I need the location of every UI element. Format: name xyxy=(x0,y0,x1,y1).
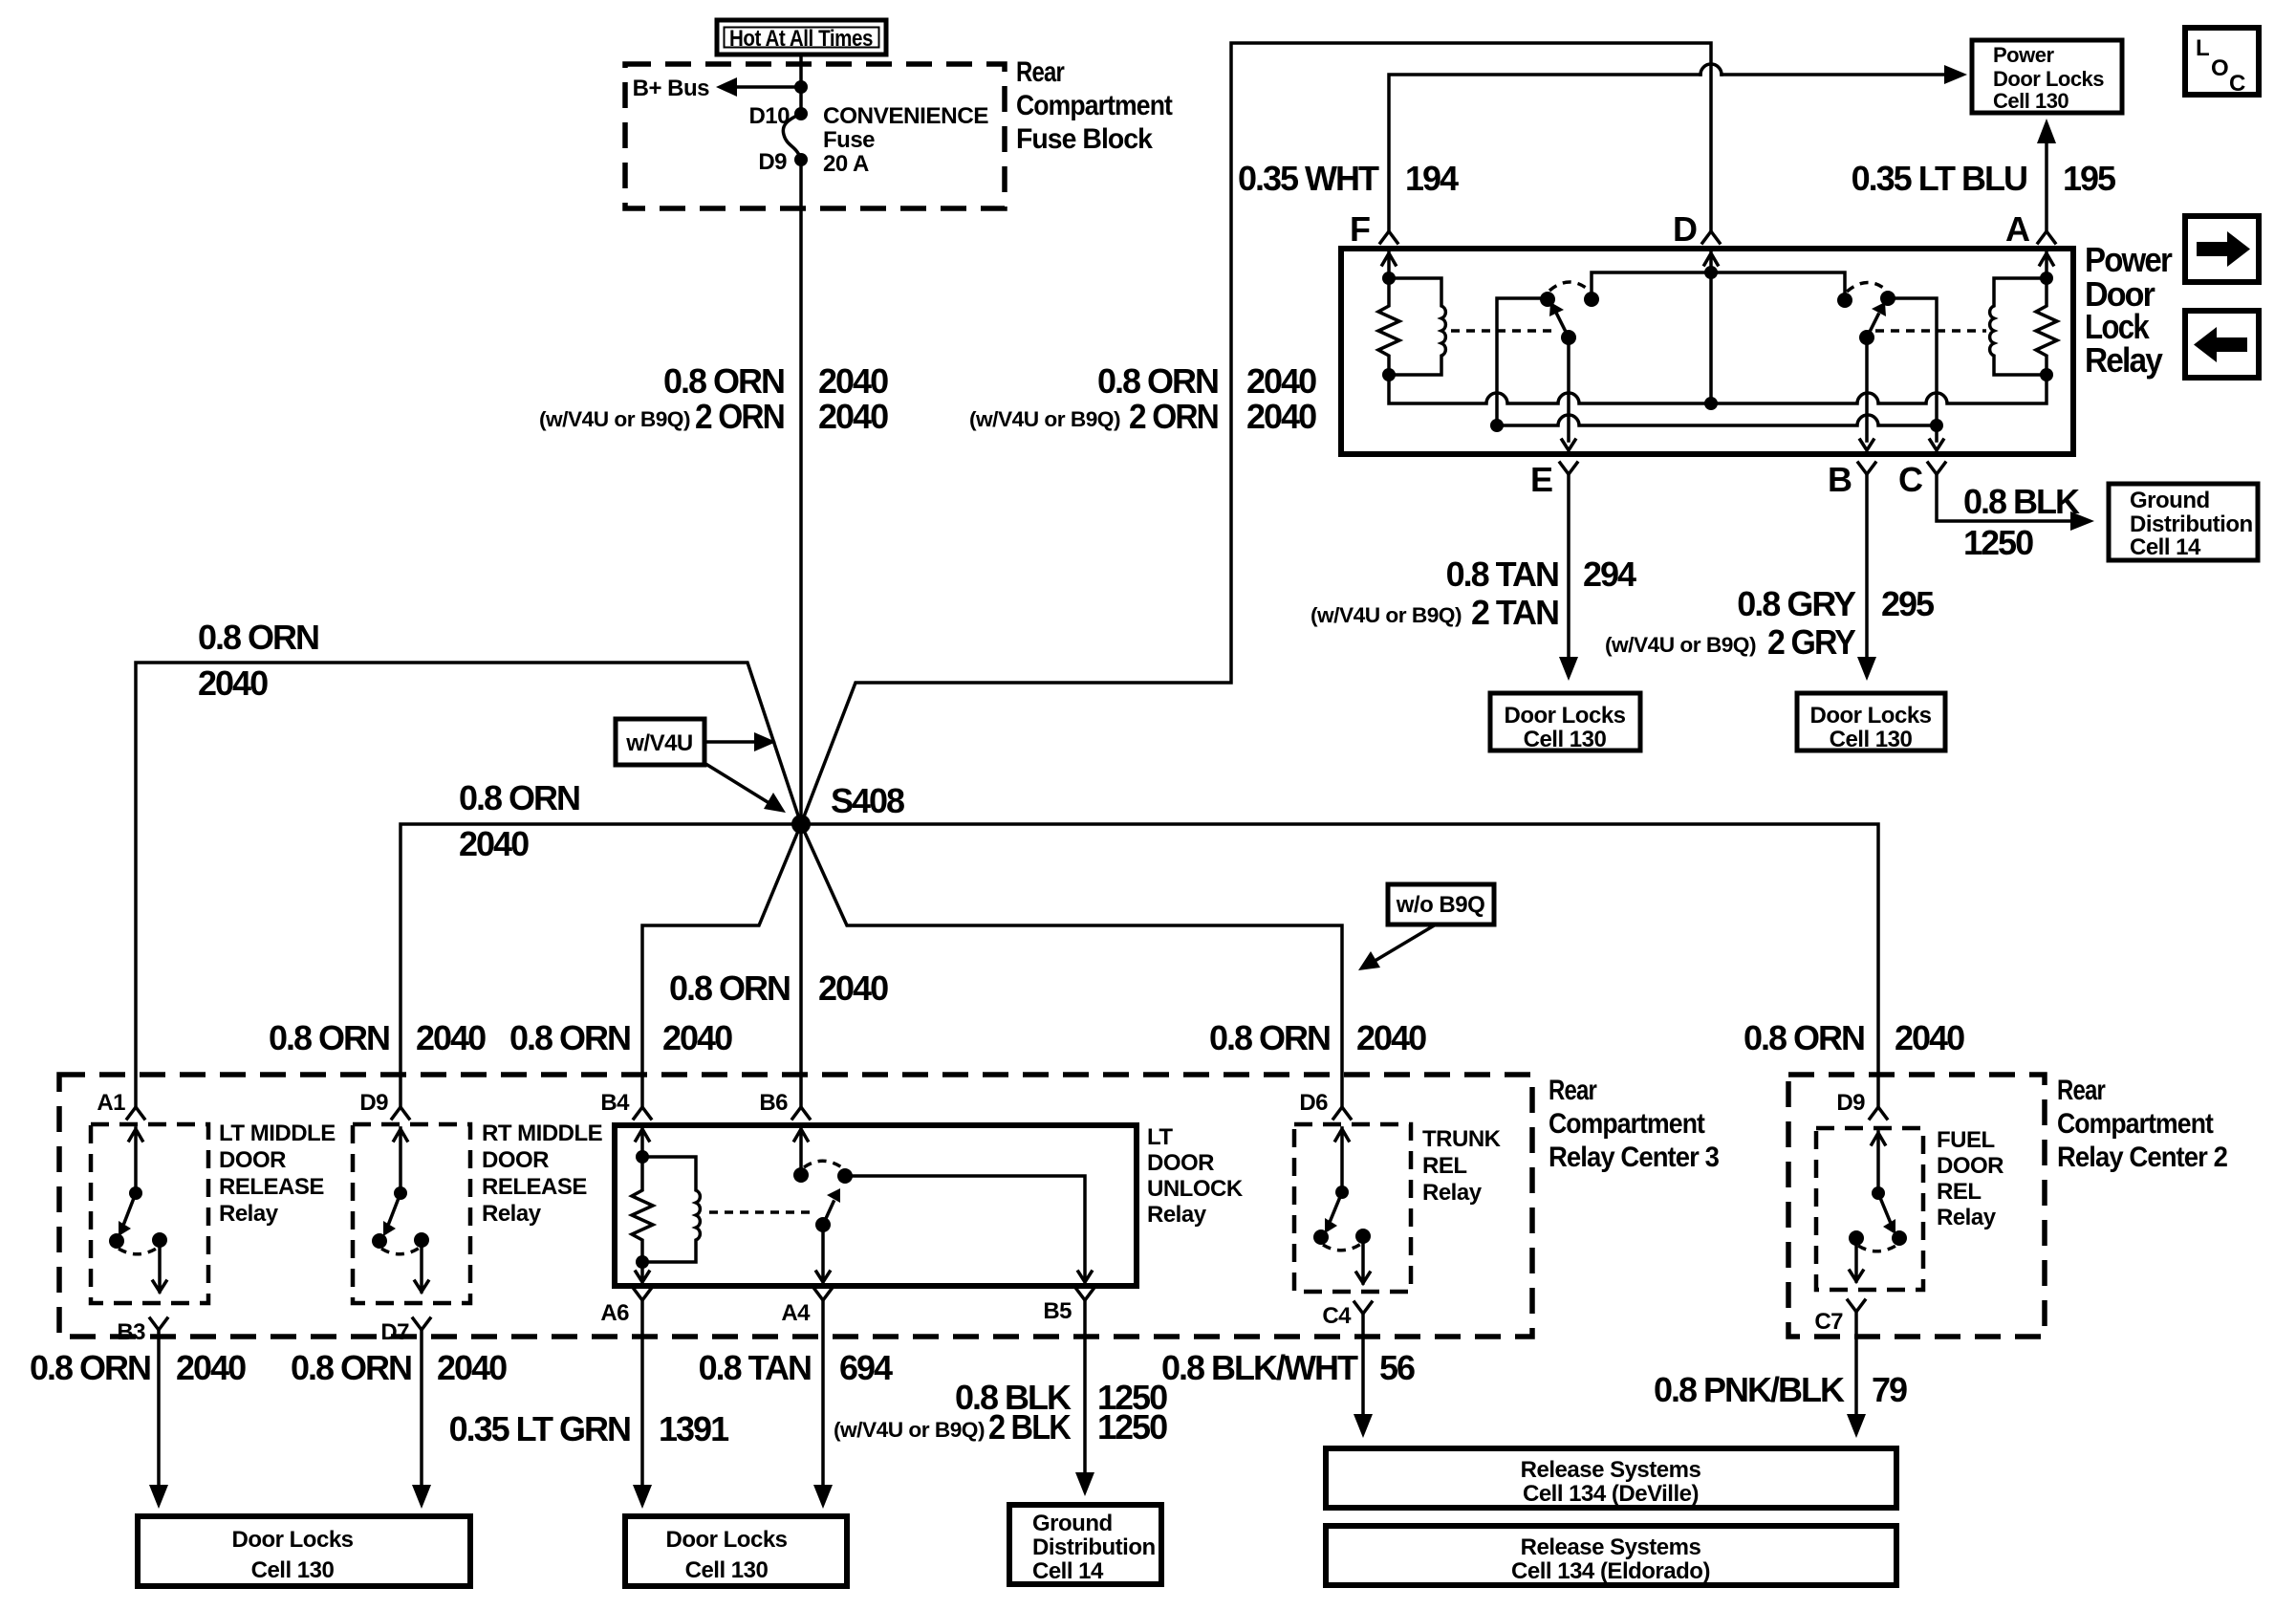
dashed throw arc xyxy=(1858,1245,1897,1251)
svg-text:Relay Center 2: Relay Center 2 xyxy=(2057,1142,2227,1173)
svg-text:D9: D9 xyxy=(1836,1090,1865,1116)
label 0.8 ORN 2040 (B3) xyxy=(30,1348,246,1387)
coil (left relay winding) xyxy=(1389,278,1445,375)
splice S408 dot xyxy=(791,815,811,834)
box Door Locks Cell 130 (B3/D7) xyxy=(138,1516,470,1586)
svg-text:Relay: Relay xyxy=(1422,1180,1483,1206)
svg-text:0.8 ORN: 0.8 ORN xyxy=(1744,1018,1864,1057)
crossbar linking both switches xyxy=(1592,272,1845,300)
terminal chevron B xyxy=(1858,463,1875,474)
svg-text:REL: REL xyxy=(1422,1153,1467,1179)
Rear Compartment Fuse Block dashed box xyxy=(625,64,1005,208)
dashed box Rear Compartment Relay Center 2 xyxy=(1788,1075,2045,1337)
label 0.8 TAN 694 xyxy=(699,1348,893,1387)
svg-text:2 TAN: 2 TAN xyxy=(1471,593,1558,632)
box Door Locks Cell 130 (B) xyxy=(1797,693,1945,752)
terminal chevron C4 xyxy=(1354,1302,1372,1314)
label CONVENIENCE Fuse 20 A xyxy=(823,103,988,177)
wire: D7 to Door Locks xyxy=(420,1330,423,1486)
arrowhead A to box xyxy=(2037,119,2056,143)
terminal chevron D9 (fuel) xyxy=(1870,1107,1887,1119)
svg-text:O: O xyxy=(2211,55,2228,81)
label Rear Compartment Relay Center 3 xyxy=(1549,1075,1719,1173)
output wire to D7 xyxy=(415,1240,428,1292)
svg-text:Cell 134 (Eldorado): Cell 134 (Eldorado) xyxy=(1511,1558,1710,1584)
switch right contact xyxy=(1355,1229,1371,1244)
left wiper arrowhead xyxy=(1549,302,1564,316)
svg-text:F: F xyxy=(1350,209,1370,249)
wire: C4 to Release Systems xyxy=(1361,1314,1365,1415)
svg-text:RELEASE: RELEASE xyxy=(482,1174,587,1200)
svg-text:Release Systems: Release Systems xyxy=(1521,1457,1701,1483)
fuse terminal D9 dot xyxy=(794,153,808,166)
svg-text:294: 294 xyxy=(1583,555,1636,594)
svg-text:B4: B4 xyxy=(600,1090,630,1116)
svg-text:0.8 ORN: 0.8 ORN xyxy=(459,778,579,817)
wire: S408 lower-right branch to TRUNK REL D6 xyxy=(801,824,1342,1107)
switch arm arrowhead xyxy=(1883,1219,1895,1234)
svg-text:2040: 2040 xyxy=(1356,1018,1426,1057)
arrowhead A6 xyxy=(633,1485,652,1509)
switch arm xyxy=(1331,1192,1342,1220)
svg-text:D: D xyxy=(1673,209,1697,249)
svg-text:0.8 TAN: 0.8 TAN xyxy=(699,1348,811,1387)
svg-text:Relay: Relay xyxy=(2085,340,2163,380)
label TRUNK REL Relay xyxy=(1422,1126,1502,1206)
svg-text:LT: LT xyxy=(1147,1124,1173,1150)
svg-text:0.8 ORN: 0.8 ORN xyxy=(1097,361,1218,401)
coil winding xyxy=(642,1157,700,1262)
wire: B3 to Door Locks xyxy=(157,1330,161,1486)
svg-text:(w/V4U or B9Q): (w/V4U or B9Q) xyxy=(969,407,1120,431)
label FUEL DOOR REL Relay xyxy=(1937,1127,2004,1230)
inner dashed box xyxy=(353,1124,470,1303)
bus2: unlock return with hops xyxy=(1497,415,1937,425)
svg-text:0.35 WHT: 0.35 WHT xyxy=(1238,159,1379,198)
fuse element CONVENIENCE Fuse 20 A xyxy=(783,114,801,160)
svg-text:Relay: Relay xyxy=(219,1201,279,1227)
terminal chevron A6 xyxy=(634,1289,651,1300)
arrowhead C wire xyxy=(2070,511,2094,531)
wire: A6 to Door Locks xyxy=(640,1300,644,1486)
relay pin B6 arrow down to contact xyxy=(794,1128,808,1175)
svg-text:2040: 2040 xyxy=(1895,1018,1964,1057)
svg-text:2040: 2040 xyxy=(818,361,888,401)
svg-text:C: C xyxy=(1898,460,1923,499)
switch arm xyxy=(389,1193,401,1223)
output wire to C7 xyxy=(1850,1238,1863,1281)
svg-text:20 A: 20 A xyxy=(823,151,869,177)
relay input arrow (A1) xyxy=(129,1128,142,1193)
svg-text:DOOR: DOOR xyxy=(1937,1153,2004,1179)
node: bus2 right end xyxy=(1930,419,1943,432)
svg-text:0.8 PNK/BLK: 0.8 PNK/BLK xyxy=(1654,1370,1845,1409)
svg-text:0.8 BLK: 0.8 BLK xyxy=(1963,482,2080,521)
svg-text:Door Locks: Door Locks xyxy=(1809,703,1931,729)
dashed actuator link (left) xyxy=(1451,329,1556,333)
label Rear Compartment Fuse Block xyxy=(1016,56,1173,155)
svg-text:B3: B3 xyxy=(117,1319,145,1345)
wire: S408 down to LT DOOR UNLOCK B6 xyxy=(799,824,803,1107)
svg-text:Ground: Ground xyxy=(2130,488,2210,513)
svg-text:Compartment: Compartment xyxy=(1016,90,1173,121)
arrowhead B wire xyxy=(1857,657,1876,681)
svg-text:Compartment: Compartment xyxy=(1549,1108,1705,1140)
switch left contact xyxy=(1313,1229,1329,1245)
svg-text:DOOR: DOOR xyxy=(219,1147,286,1173)
label (w/V4U or B9Q) 2 ORN 2040 (right riser) xyxy=(969,397,1316,436)
node: left coil bottom xyxy=(1382,368,1396,381)
switch arm xyxy=(124,1193,136,1223)
label (w/V4U or B9Q) 2 GRY xyxy=(1605,622,1856,662)
svg-text:2040: 2040 xyxy=(176,1348,246,1387)
right switch right contact xyxy=(1880,291,1895,306)
label 0.8 BLK 1250 xyxy=(955,1378,1167,1417)
svg-text:0.35 LT GRN: 0.35 LT GRN xyxy=(449,1409,630,1448)
left switch left contact xyxy=(1540,292,1555,307)
label 0.8 GRY 295 xyxy=(1737,584,1935,623)
label Power Door Lock Relay xyxy=(2085,240,2173,380)
inner dashed box xyxy=(1294,1124,1411,1292)
label LT DOOR UNLOCK Relay xyxy=(1147,1124,1244,1228)
terminal chevron C xyxy=(1928,463,1945,474)
switch pivot xyxy=(394,1186,407,1200)
fuse terminal D10 dot xyxy=(794,107,808,120)
arrowhead C7 xyxy=(1847,1414,1866,1438)
svg-text:Cell 130: Cell 130 xyxy=(1830,727,1913,752)
svg-text:A: A xyxy=(2005,209,2030,249)
switch right contact xyxy=(837,1168,853,1184)
svg-text:2 ORN: 2 ORN xyxy=(1129,397,1218,436)
svg-text:0.8 ORN: 0.8 ORN xyxy=(30,1348,150,1387)
wire: C7 to Release Systems xyxy=(1854,1312,1858,1415)
right switch wiper pivot xyxy=(1859,330,1874,345)
wire: B5 to Ground Distribution xyxy=(1083,1300,1087,1473)
box Door Locks Cell 130 (E) xyxy=(1490,693,1640,752)
svg-text:LT MIDDLE: LT MIDDLE xyxy=(219,1120,336,1146)
label 0.35 LT GRN 1391 xyxy=(449,1409,729,1448)
label RT MIDDLE DOOR RELEASE Relay xyxy=(482,1120,603,1227)
dashed actuator link xyxy=(709,1210,812,1214)
svg-text:Rear: Rear xyxy=(1549,1075,1597,1106)
right switch dashed arc xyxy=(1847,282,1886,292)
label 0.8 ORN 2040 (D6 wire) xyxy=(1209,1018,1426,1057)
svg-text:0.8 ORN: 0.8 ORN xyxy=(198,618,318,657)
label (w/V4U or B9Q) 2 TAN xyxy=(1310,593,1558,632)
svg-text:RELEASE: RELEASE xyxy=(219,1174,324,1200)
label 0.8 ORN 2040 (B6 wire) xyxy=(669,968,888,1008)
svg-text:56: 56 xyxy=(1379,1348,1415,1387)
left switch right contact xyxy=(1584,292,1599,307)
relay input arrow (D9) xyxy=(394,1128,407,1193)
svg-text:79: 79 xyxy=(1872,1370,1907,1409)
svg-text:C7: C7 xyxy=(1814,1309,1843,1335)
switch right contact xyxy=(414,1232,429,1248)
svg-text:Rear: Rear xyxy=(2057,1075,2106,1106)
dashed throw arc xyxy=(1323,1244,1361,1251)
wire: S408 lower-left branch to LT DOOR UNLOCK B4 xyxy=(642,824,801,1107)
dashed throw arc xyxy=(804,1161,843,1168)
Hot At All Times box xyxy=(717,20,886,54)
svg-text:Power: Power xyxy=(1993,43,2054,67)
node: B+ Bus junction dot xyxy=(794,80,808,94)
box Power Door Locks Cell 130 xyxy=(1972,40,2122,113)
wire: S408 upper-left branch to LT MIDDLE DOOR RELEASE A1 xyxy=(136,663,801,1107)
svg-text:REL: REL xyxy=(1937,1179,1982,1205)
svg-text:0.8 ORN: 0.8 ORN xyxy=(1209,1018,1330,1057)
svg-text:2040: 2040 xyxy=(818,968,888,1008)
node: right coil top xyxy=(2040,272,2053,285)
svg-text:694: 694 xyxy=(839,1348,893,1387)
arrowhead A4 xyxy=(813,1485,833,1509)
svg-text:Door Locks: Door Locks xyxy=(231,1527,353,1553)
coil (right relay winding) xyxy=(1990,278,2047,375)
svg-text:Relay: Relay xyxy=(1147,1202,1207,1228)
output wire to C4 xyxy=(1356,1236,1370,1283)
switch pivot xyxy=(1872,1186,1885,1200)
dashed throw arc xyxy=(119,1248,158,1254)
svg-text:Relay Center 3: Relay Center 3 xyxy=(1549,1142,1719,1173)
relay pin F arrow xyxy=(1382,251,1396,278)
label 0.8 ORN 2040 (RT D9 vertical) xyxy=(269,1018,486,1057)
switch left contact xyxy=(372,1233,387,1249)
terminal chevron B6 xyxy=(792,1107,810,1119)
hop: F wire over D wire xyxy=(1700,64,1722,75)
wire: S408 east to FUEL DOOR REL D9 xyxy=(801,824,1878,1107)
wire: A4 to Door Locks xyxy=(821,1300,825,1486)
svg-text:(w/V4U or B9Q): (w/V4U or B9Q) xyxy=(1310,603,1462,627)
dashed box Rear Compartment Relay Center 3 xyxy=(59,1075,1532,1337)
wire: S408 upper-right branch to power door lock relay D xyxy=(801,43,1711,824)
arrowhead B3 xyxy=(149,1485,168,1509)
svg-text:2040: 2040 xyxy=(1246,397,1316,436)
svg-text:S408: S408 xyxy=(831,781,904,820)
box Release Systems Cell 134 (DeVille) xyxy=(1326,1448,1896,1508)
relay input arrow (D9) xyxy=(1872,1132,1885,1193)
svg-text:Cell 130: Cell 130 xyxy=(685,1557,769,1583)
svg-text:Power: Power xyxy=(2085,240,2173,279)
arrowhead B5 xyxy=(1075,1472,1094,1496)
switch wiper arm xyxy=(823,1202,834,1225)
terminal chevron C7 xyxy=(1848,1300,1865,1312)
svg-text:1391: 1391 xyxy=(659,1409,729,1448)
callout w/o B9Q xyxy=(1358,884,1494,970)
svg-text:w/o B9Q: w/o B9Q xyxy=(1396,892,1485,918)
svg-text:C: C xyxy=(2229,71,2245,97)
svg-text:w/V4U: w/V4U xyxy=(625,730,693,756)
svg-text:(w/V4U or B9Q): (w/V4U or B9Q) xyxy=(539,407,690,431)
svg-text:FUEL: FUEL xyxy=(1937,1127,1995,1153)
output wire to B3 xyxy=(153,1240,166,1292)
svg-text:Cell 14: Cell 14 xyxy=(2130,534,2201,560)
svg-text:2 BLK: 2 BLK xyxy=(988,1407,1072,1447)
terminal chevron D xyxy=(1702,231,1720,243)
switch right contact xyxy=(1892,1230,1907,1246)
relay pin D arrow and drop to bus1 xyxy=(1704,251,1718,403)
wire: relay F up and to Power Door Locks box (0.35 WHT 194) xyxy=(1389,75,1945,231)
terminal chevron D7 xyxy=(413,1318,430,1330)
box Door Locks Cell 130 (A6/A4) xyxy=(625,1516,847,1586)
svg-text:0.8 ORN: 0.8 ORN xyxy=(509,1018,630,1057)
svg-text:L: L xyxy=(2196,35,2209,61)
wire: B drop from right wiper xyxy=(1860,337,1874,450)
left switch wiper arm xyxy=(1557,315,1569,337)
node: D bus1 junction xyxy=(1704,397,1718,410)
svg-text:D7: D7 xyxy=(380,1319,409,1345)
node: left coil top xyxy=(1382,272,1396,285)
inner dashed box xyxy=(1816,1128,1923,1290)
svg-text:1250: 1250 xyxy=(1097,1407,1167,1447)
svg-text:DOOR: DOOR xyxy=(482,1147,549,1173)
svg-text:0.8 TAN: 0.8 TAN xyxy=(1446,555,1558,594)
svg-text:C4: C4 xyxy=(1322,1303,1352,1329)
terminal chevron D6 xyxy=(1333,1107,1351,1119)
svg-text:Cell 134 (DeVille): Cell 134 (DeVille) xyxy=(1523,1481,1699,1507)
svg-text:2040: 2040 xyxy=(198,664,268,703)
dashed actuator link (right) xyxy=(1875,329,1986,333)
svg-text:CONVENIENCE: CONVENIENCE xyxy=(823,103,988,129)
wire from left contact to bus2 branch xyxy=(1497,298,1548,425)
arrowhead C4 xyxy=(1354,1414,1373,1438)
svg-text:B+ Bus: B+ Bus xyxy=(633,76,710,101)
switch left contact (B6) xyxy=(793,1167,809,1183)
svg-text:B5: B5 xyxy=(1043,1298,1072,1324)
wire: C branch from right switch contact xyxy=(1888,298,1943,450)
label 0.8 PNK/BLK 79 xyxy=(1654,1370,1907,1409)
terminal chevron B5 xyxy=(1076,1289,1094,1300)
inner dashed box xyxy=(91,1124,208,1303)
switch pivot xyxy=(129,1186,142,1200)
legend box lock arrow (right) xyxy=(2185,216,2259,282)
svg-text:0.8 ORN: 0.8 ORN xyxy=(291,1348,411,1387)
label LT MIDDLE DOOR RELEASE Relay xyxy=(219,1120,336,1227)
node: bus2 left end xyxy=(1490,419,1504,432)
svg-text:Compartment: Compartment xyxy=(2057,1108,2214,1140)
right wiper arrowhead xyxy=(1872,302,1886,316)
svg-text:2040: 2040 xyxy=(459,824,529,863)
svg-text:Fuse Block: Fuse Block xyxy=(1016,123,1153,155)
wire: coil to A6 with arrow xyxy=(636,1262,649,1282)
svg-text:2040: 2040 xyxy=(437,1348,507,1387)
right switch left contact xyxy=(1837,293,1852,308)
box Ground Distribution Cell 14 xyxy=(1009,1505,1161,1584)
svg-text:Hot At All Times: Hot At All Times xyxy=(729,26,873,52)
arrowhead into Power Door Locks box xyxy=(1944,65,1967,84)
svg-text:0.8 BLK/WHT: 0.8 BLK/WHT xyxy=(1161,1348,1358,1387)
wire: wiper down to A4 with arrow xyxy=(816,1225,830,1282)
legend box LOC xyxy=(2185,28,2259,97)
svg-text:Relay: Relay xyxy=(1937,1205,1997,1230)
dashed throw arc xyxy=(381,1248,420,1254)
relay solid box xyxy=(615,1125,1137,1286)
arrowhead B+ Bus xyxy=(716,77,737,97)
label (w/V4U or B9Q) 2 ORN 2040 xyxy=(539,397,888,436)
svg-text:D9: D9 xyxy=(359,1090,388,1116)
node: right coil bottom xyxy=(2040,368,2053,381)
svg-text:A4: A4 xyxy=(781,1300,811,1326)
svg-text:Ground: Ground xyxy=(1032,1511,1113,1536)
left switch dashed arc xyxy=(1549,282,1590,291)
label 0.8 ORN 2040 (FUEL D9 wire) xyxy=(1744,1018,1964,1057)
terminal chevron B4 xyxy=(634,1107,651,1119)
wire: right contact to B5 with arrow xyxy=(845,1176,1092,1282)
svg-text:(w/V4U or B9Q): (w/V4U or B9Q) xyxy=(1605,633,1756,657)
svg-text:DOOR: DOOR xyxy=(1147,1150,1214,1176)
label 0.8 BLK/WHT 56 xyxy=(1161,1348,1415,1387)
box Ground Distribution Cell 14 xyxy=(2109,484,2258,560)
svg-text:2040: 2040 xyxy=(818,397,888,436)
svg-text:E: E xyxy=(1530,460,1552,499)
label 0.35 LT BLU 195 xyxy=(1852,159,2116,198)
terminal chevron F xyxy=(1380,231,1397,243)
label Rear Compartment Relay Center 2 xyxy=(2057,1075,2227,1173)
wire: E to Door Locks (0.8 TAN 294) xyxy=(1567,474,1570,658)
svg-text:B: B xyxy=(1828,460,1852,499)
svg-text:A6: A6 xyxy=(600,1300,629,1326)
svg-text:2040: 2040 xyxy=(416,1018,486,1057)
svg-text:Rear: Rear xyxy=(1016,56,1065,88)
wire: fuse D9 down to splice S408 xyxy=(799,160,803,824)
label 0.8 ORN 2040 (A1 branch) xyxy=(198,618,318,703)
arrowhead D7 xyxy=(412,1485,431,1509)
terminal chevron B3 xyxy=(150,1318,167,1330)
label 0.8 TAN 294 xyxy=(1446,555,1636,594)
svg-text:Relay: Relay xyxy=(482,1201,542,1227)
resistor (right, parallel with coil) xyxy=(2036,278,2057,375)
label 0.35 WHT 194 xyxy=(1238,159,1459,198)
switch arm arrowhead xyxy=(119,1221,131,1236)
node: D crossbar junction xyxy=(1704,266,1718,279)
svg-text:0.8 ORN: 0.8 ORN xyxy=(669,968,790,1008)
label 0.8 ORN 2040 (fuse feed) xyxy=(663,361,888,401)
svg-text:0.35 LT BLU: 0.35 LT BLU xyxy=(1852,159,2026,198)
relay pin A arrow xyxy=(2040,251,2053,278)
wire: relay A up to Power Door Locks box (0.35 LT BLU 195) xyxy=(2045,141,2048,231)
svg-text:0.8 ORN: 0.8 ORN xyxy=(663,361,784,401)
wiper arrowhead xyxy=(827,1188,840,1203)
svg-text:Distribution: Distribution xyxy=(2130,511,2253,537)
svg-text:Release Systems: Release Systems xyxy=(1521,1534,1701,1560)
svg-text:RT MIDDLE: RT MIDDLE xyxy=(482,1120,603,1146)
svg-text:Door Locks: Door Locks xyxy=(1993,67,2104,91)
node: coil top xyxy=(636,1150,649,1164)
relay input arrow (D6) xyxy=(1335,1128,1349,1192)
svg-text:Door Locks: Door Locks xyxy=(665,1527,787,1553)
switch pivot xyxy=(1335,1186,1349,1199)
wire: S408 west to RT MIDDLE DOOR RELEASE D9 xyxy=(401,824,801,1107)
svg-text:0.8 GRY: 0.8 GRY xyxy=(1737,584,1856,623)
right switch wiper arm xyxy=(1867,315,1878,337)
switch left contact xyxy=(109,1233,124,1249)
svg-text:Cell 130: Cell 130 xyxy=(251,1557,335,1583)
label 0.8 ORN 2040 (RT D9 branch) xyxy=(459,778,579,863)
svg-text:195: 195 xyxy=(2063,159,2116,198)
svg-text:(w/V4U or B9Q): (w/V4U or B9Q) xyxy=(834,1418,985,1442)
switch arm xyxy=(1878,1193,1890,1221)
switch arm arrowhead xyxy=(383,1221,396,1236)
switch left contact xyxy=(1849,1230,1864,1246)
wire: B+ Bus tap xyxy=(734,85,801,89)
node: coil bottom xyxy=(636,1255,649,1269)
svg-text:1250: 1250 xyxy=(1963,523,2033,562)
bus1: coil common with hops xyxy=(1389,375,2047,403)
label (w/V4U or B9Q) 2 BLK 1250 xyxy=(834,1407,1167,1447)
relay pin B4 arrow xyxy=(636,1128,649,1157)
resistor (parallel with coil) xyxy=(632,1157,653,1262)
wire: battery feed into fuse block xyxy=(799,54,803,114)
svg-text:2040: 2040 xyxy=(1246,361,1316,401)
svg-text:2040: 2040 xyxy=(662,1018,732,1057)
